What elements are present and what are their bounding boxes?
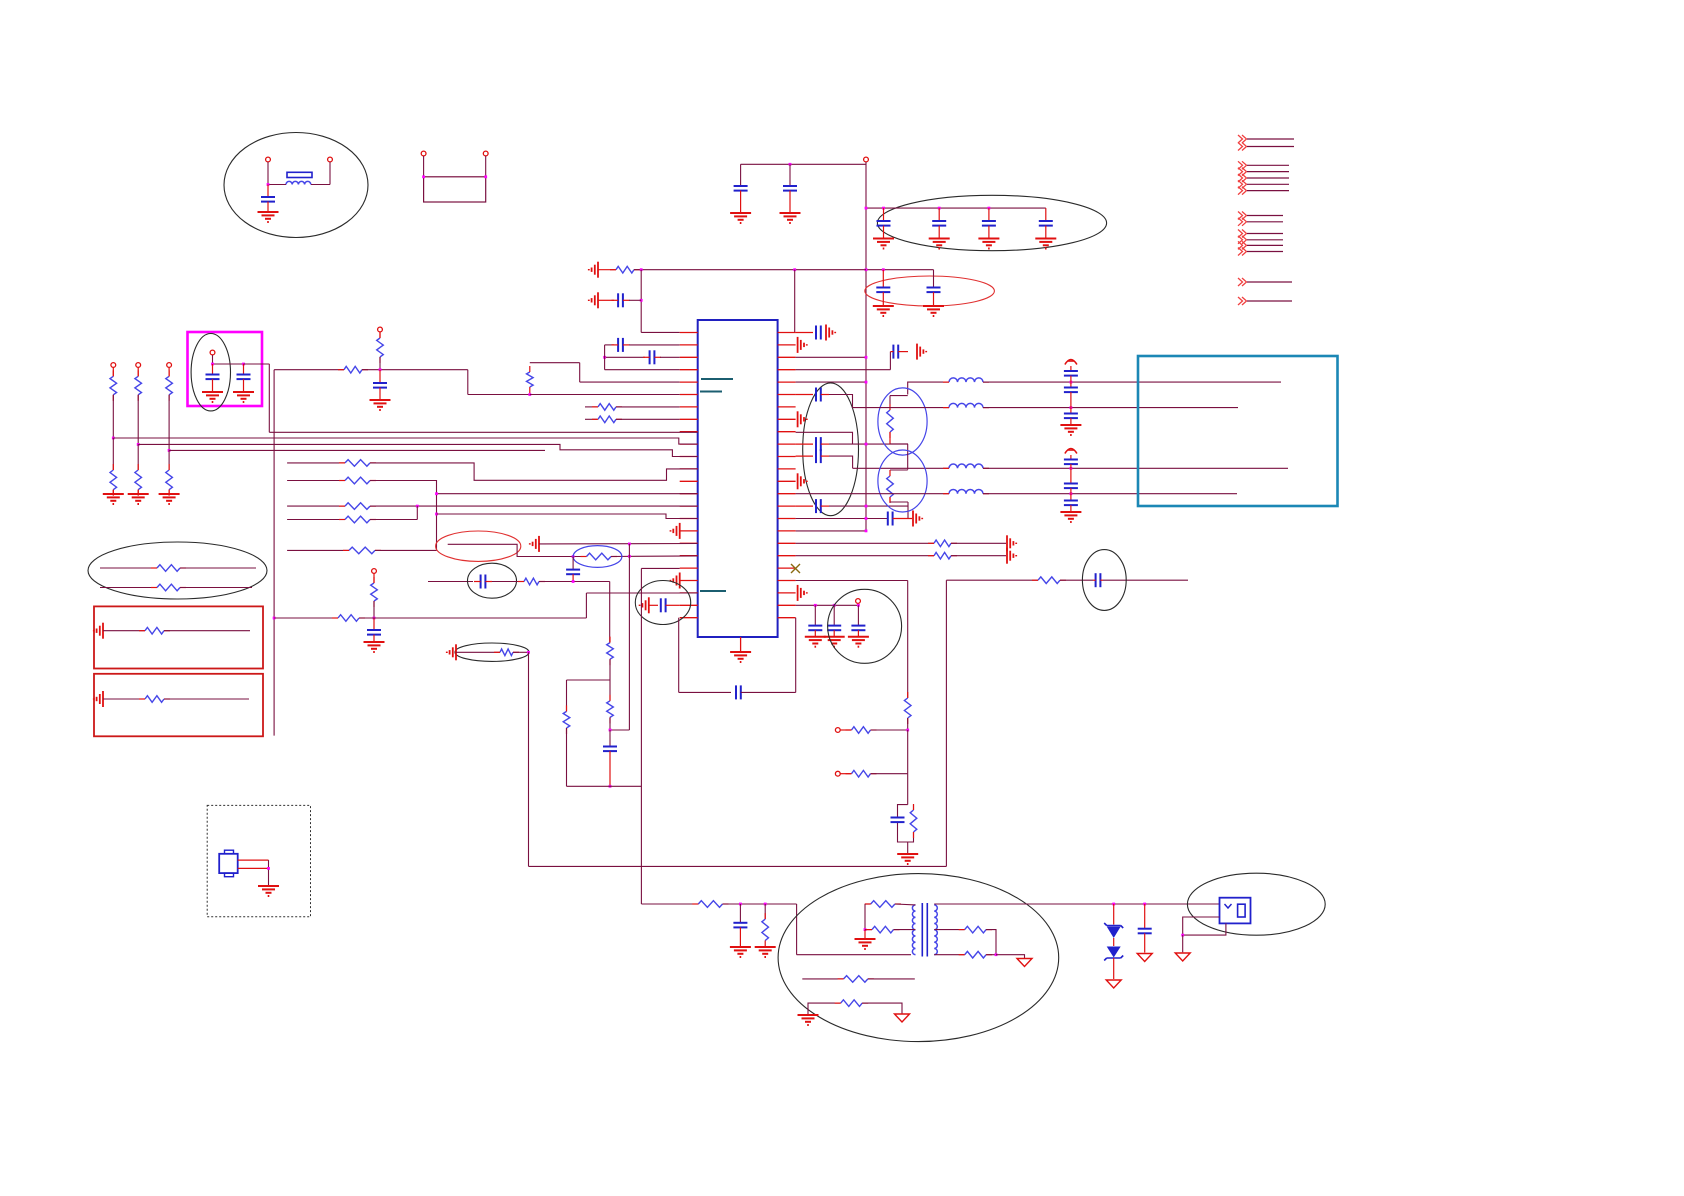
wire y618	[274, 617, 338, 619]
capacitor C28	[1070, 455, 1072, 460]
junction	[379, 368, 382, 371]
resistor R5	[377, 338, 384, 357]
wire	[840, 729, 851, 731]
ground rotated	[538, 536, 540, 552]
wire	[609, 717, 611, 730]
wire line1	[908, 382, 949, 394]
junction	[168, 449, 171, 452]
wire	[889, 432, 891, 444]
ground	[1060, 511, 1081, 513]
wire	[428, 581, 473, 583]
capacitor C9	[933, 270, 935, 288]
enclosure ellipse	[878, 388, 927, 455]
junction	[603, 356, 606, 359]
junction	[906, 729, 909, 732]
ground	[1060, 424, 1081, 426]
wire	[416, 506, 418, 519]
transformer T1 primary	[912, 905, 915, 955]
connector stub	[1238, 174, 1247, 182]
resistor R15	[345, 503, 370, 510]
ground rotated	[679, 523, 681, 539]
capacitor C31	[891, 817, 905, 819]
wire	[829, 395, 853, 408]
wire r1	[287, 462, 345, 464]
resistor R11	[135, 470, 142, 490]
junction	[435, 513, 438, 516]
wire	[797, 954, 911, 956]
wire	[802, 978, 843, 980]
wire	[467, 370, 469, 395]
capacitor C34	[1144, 904, 1146, 929]
wire	[359, 617, 586, 619]
ground	[1035, 238, 1056, 240]
wire y369	[274, 369, 344, 371]
resistor R40	[764, 904, 766, 919]
junction	[628, 555, 631, 558]
wire	[641, 903, 698, 905]
wire	[137, 395, 139, 445]
wire	[796, 542, 934, 544]
wire	[641, 331, 680, 333]
wire	[609, 659, 611, 701]
ground	[128, 493, 149, 495]
wire	[1103, 579, 1188, 581]
wire	[865, 929, 872, 931]
enclosure ellipse (series pair)	[88, 542, 267, 599]
wire	[213, 363, 270, 365]
enclosure circle (xtal caps)	[828, 589, 902, 663]
wire	[862, 1003, 902, 1013]
ground	[159, 493, 180, 495]
ground	[202, 391, 223, 393]
pin P14	[835, 771, 840, 776]
wire	[605, 369, 680, 371]
wire	[539, 543, 698, 545]
ground rotated	[916, 344, 918, 360]
wire	[871, 773, 908, 775]
wire	[112, 395, 114, 438]
capacitor C15	[379, 370, 381, 383]
wire	[566, 728, 568, 786]
ground rotated	[797, 473, 799, 489]
wire	[871, 729, 908, 731]
enclosure ellipse (net tag)	[436, 531, 521, 561]
IC U1 right pins	[778, 332, 796, 334]
capacitor C35	[796, 394, 813, 396]
wire	[448, 544, 587, 556]
wire	[609, 582, 611, 643]
enclosure ellipse (dc block)	[468, 563, 517, 598]
wire	[890, 469, 908, 471]
junction	[1070, 492, 1073, 495]
ground rotated	[679, 573, 681, 589]
wire	[740, 164, 742, 185]
junction	[640, 299, 643, 302]
wire	[983, 467, 1288, 469]
wire	[829, 443, 908, 445]
wire	[741, 163, 866, 165]
resistor R45	[844, 976, 868, 983]
wire	[741, 691, 796, 693]
wire	[641, 567, 679, 569]
wire r5	[287, 549, 349, 551]
wire	[604, 345, 606, 370]
connector stub	[1238, 168, 1247, 176]
capacitor C11	[617, 338, 619, 352]
junction	[112, 437, 115, 440]
wire	[103, 630, 145, 632]
resistor R33	[887, 476, 894, 497]
capacitor C12	[649, 350, 651, 364]
wire	[539, 581, 610, 583]
resistor R28	[563, 711, 570, 728]
resistor R16	[345, 516, 370, 523]
connector stub	[1238, 297, 1247, 305]
wire	[329, 162, 331, 185]
wire	[934, 954, 965, 956]
wire	[423, 156, 425, 177]
junction	[988, 207, 991, 210]
wire	[268, 364, 270, 432]
ground	[258, 885, 279, 887]
wire	[137, 368, 139, 377]
resistor R17	[349, 547, 375, 554]
resistor R23	[338, 615, 359, 622]
capacitor C19	[609, 730, 611, 746]
wire	[796, 356, 866, 358]
junction	[789, 163, 792, 166]
wire	[723, 903, 797, 905]
capacitor C22	[796, 332, 813, 334]
resistor R24	[587, 553, 612, 560]
junction	[422, 175, 425, 178]
connector stub	[1238, 143, 1247, 151]
resistor R41	[871, 901, 895, 908]
enclosure box dashed (xtal)	[207, 805, 310, 916]
ground rotated	[797, 411, 799, 427]
wire	[610, 729, 629, 731]
connector stub	[1238, 135, 1247, 143]
wire	[373, 574, 375, 584]
junction	[882, 207, 885, 210]
chassis ground	[1106, 980, 1121, 988]
junction	[609, 785, 612, 788]
wire	[580, 381, 680, 383]
wire	[370, 519, 417, 521]
resistor R30	[934, 540, 951, 547]
wire r4	[287, 519, 345, 521]
wire	[456, 651, 500, 653]
ground	[923, 305, 944, 307]
resistor R12	[166, 470, 173, 490]
capacitor C24	[887, 512, 889, 526]
junction	[1112, 903, 1115, 906]
junction	[273, 617, 276, 620]
wire bus C	[138, 444, 698, 456]
enclosure ellipse (bead filter group)	[224, 133, 368, 238]
capacitor C23	[892, 345, 894, 359]
pin P5	[864, 157, 869, 162]
wire line2	[853, 407, 950, 409]
pin P3	[421, 151, 426, 156]
capacitor C29	[1070, 468, 1072, 483]
jumper loop W1	[424, 177, 486, 202]
wire	[168, 368, 170, 377]
wire	[238, 867, 269, 869]
IC U1 marking	[701, 378, 733, 380]
wire	[616, 406, 680, 408]
wire	[112, 438, 114, 470]
RC tank wires	[898, 805, 908, 817]
chassis ground	[895, 1014, 910, 1022]
pin P8	[111, 363, 116, 368]
junction	[1143, 903, 1146, 906]
resistor R29	[500, 649, 513, 656]
wire	[585, 418, 597, 420]
capacitor C25	[1070, 366, 1072, 371]
resistor R6	[344, 366, 362, 373]
enclosure ellipse	[191, 334, 230, 411]
resistor R44	[965, 951, 986, 958]
resistor R43	[965, 926, 986, 933]
capacitor C14	[243, 364, 245, 375]
wire	[585, 593, 587, 618]
wire	[679, 691, 731, 693]
wire vertical trunk	[273, 370, 275, 736]
wire	[180, 587, 252, 589]
enclosure ellipse (cap pair)	[865, 276, 995, 306]
capacitor C8	[882, 270, 884, 288]
junction	[242, 363, 245, 366]
ground	[978, 238, 999, 240]
wire	[137, 490, 139, 493]
ground	[364, 641, 385, 643]
ground	[873, 238, 894, 240]
resistor R35	[852, 727, 871, 734]
wire	[986, 954, 996, 956]
capacitor C30	[1070, 494, 1072, 501]
ground rotated	[1006, 535, 1008, 551]
capacitor C13	[212, 364, 214, 375]
wire	[137, 444, 139, 470]
wire	[567, 785, 642, 787]
enclosure ellipse	[878, 450, 927, 512]
resistor R42	[872, 926, 894, 933]
wire	[894, 929, 916, 931]
resistor R20	[145, 627, 164, 634]
pin P13	[835, 728, 840, 733]
ground	[730, 651, 751, 653]
ground	[805, 636, 826, 638]
wire	[796, 381, 866, 383]
capacitor C27	[1070, 408, 1072, 414]
junction	[1070, 467, 1073, 470]
connector stub	[1238, 236, 1247, 244]
capacitor C32	[1095, 573, 1097, 587]
junction	[435, 492, 438, 495]
wire	[244, 363, 270, 365]
wire	[907, 718, 909, 730]
wire	[629, 344, 680, 346]
junction	[764, 903, 767, 906]
wire	[598, 269, 616, 271]
wire	[895, 903, 916, 906]
connector stub	[1238, 187, 1247, 195]
ground	[798, 1014, 819, 1016]
ground	[855, 938, 876, 940]
pin P12	[856, 599, 861, 604]
junction	[137, 443, 140, 446]
wire	[530, 362, 580, 364]
wire	[598, 299, 614, 301]
enclosure ellipse (series caps)	[803, 383, 859, 516]
wire	[370, 481, 698, 494]
junction	[793, 268, 796, 271]
connector stub	[1238, 230, 1247, 238]
ground	[730, 212, 751, 214]
ground	[370, 399, 391, 401]
capacitor C10	[617, 293, 619, 307]
capacitor C26	[1070, 382, 1072, 387]
wire	[180, 567, 256, 569]
ground	[730, 946, 751, 948]
ground	[755, 946, 776, 948]
resistor R4	[598, 416, 616, 423]
capacitor C36	[796, 443, 813, 445]
inductor L3	[949, 464, 983, 468]
junction	[484, 175, 487, 178]
wire	[112, 490, 114, 493]
wire	[889, 352, 891, 370]
wire	[789, 164, 791, 185]
wire	[796, 555, 934, 557]
junction	[267, 867, 270, 870]
wire	[379, 332, 381, 338]
zener diode D2	[1113, 938, 1115, 946]
transformer T1 secondary	[934, 905, 937, 955]
junction	[267, 183, 270, 186]
wire	[796, 580, 908, 582]
chassis ground	[1175, 953, 1190, 961]
wire vertical	[628, 544, 630, 730]
capacitor C37	[796, 455, 813, 457]
wire	[868, 978, 915, 980]
wire vertical trunk2	[640, 568, 642, 904]
wire	[649, 604, 658, 606]
power dome	[1065, 360, 1077, 365]
inductor L4	[949, 489, 983, 493]
wire	[362, 369, 468, 371]
wire	[1182, 935, 1184, 952]
ground rotated	[825, 325, 827, 341]
connector stub	[1238, 248, 1247, 256]
wire	[586, 592, 697, 594]
wire	[951, 542, 1006, 544]
enclosure box (option2)	[94, 674, 263, 737]
junction	[572, 555, 575, 558]
resistor R9	[166, 376, 173, 395]
junction	[882, 268, 885, 271]
power dome	[1065, 449, 1077, 454]
wire	[660, 356, 680, 358]
wire	[164, 630, 250, 632]
wire vertical	[907, 444, 909, 470]
ground rotated	[797, 585, 799, 601]
wire	[945, 580, 947, 866]
connector stub	[1238, 180, 1247, 188]
wire VCC rail	[865, 162, 867, 531]
capacitor C33	[739, 904, 741, 923]
capacitor C20	[660, 598, 662, 612]
wire	[513, 651, 529, 653]
junction	[865, 381, 868, 384]
ground	[929, 238, 950, 240]
capacitor C38	[796, 505, 813, 507]
wire	[605, 356, 645, 358]
wire	[485, 156, 487, 177]
wire	[829, 456, 853, 468]
resistor R2	[527, 372, 534, 387]
wire bus A	[269, 431, 697, 433]
wire	[370, 505, 698, 507]
enclosure ellipse (dc block2)	[1082, 550, 1126, 611]
wire	[866, 207, 1046, 209]
wire	[857, 603, 859, 605]
zener diode D1	[1113, 904, 1115, 925]
connector stub	[1238, 161, 1247, 169]
wire	[795, 618, 797, 693]
wire	[986, 930, 996, 955]
wire	[112, 368, 114, 377]
enclosure ellipse (bias)	[455, 643, 529, 661]
fuse box F1	[1220, 898, 1251, 924]
wire	[566, 680, 568, 711]
wire	[796, 369, 891, 371]
pin P4	[483, 151, 488, 156]
wire	[268, 184, 286, 186]
wire	[907, 581, 909, 699]
wire	[634, 269, 866, 271]
no-connect X	[791, 564, 800, 573]
wire	[796, 432, 853, 444]
wire	[666, 604, 680, 606]
enclosure box (osc group)	[188, 332, 263, 406]
IC U1 marking	[700, 391, 722, 393]
connector box J1	[1138, 356, 1338, 506]
junction	[995, 953, 998, 956]
wire	[865, 903, 871, 905]
resistor R8	[135, 376, 142, 395]
wire	[983, 493, 1237, 495]
chassis ground	[1017, 959, 1032, 967]
capacitor C1	[267, 185, 269, 198]
wire	[212, 355, 214, 364]
wire	[605, 344, 614, 346]
wire	[840, 773, 851, 775]
wire	[164, 698, 249, 700]
ground	[233, 391, 254, 393]
wire	[808, 1003, 841, 1014]
junction	[814, 604, 817, 607]
wire	[572, 557, 574, 570]
junction	[1070, 406, 1073, 409]
enclosure ellipse (decoupling caps)	[877, 195, 1106, 250]
wire	[492, 581, 524, 583]
wire	[267, 162, 269, 185]
IC U1 left pins	[680, 332, 698, 334]
wire	[103, 698, 145, 700]
junction	[739, 903, 742, 906]
